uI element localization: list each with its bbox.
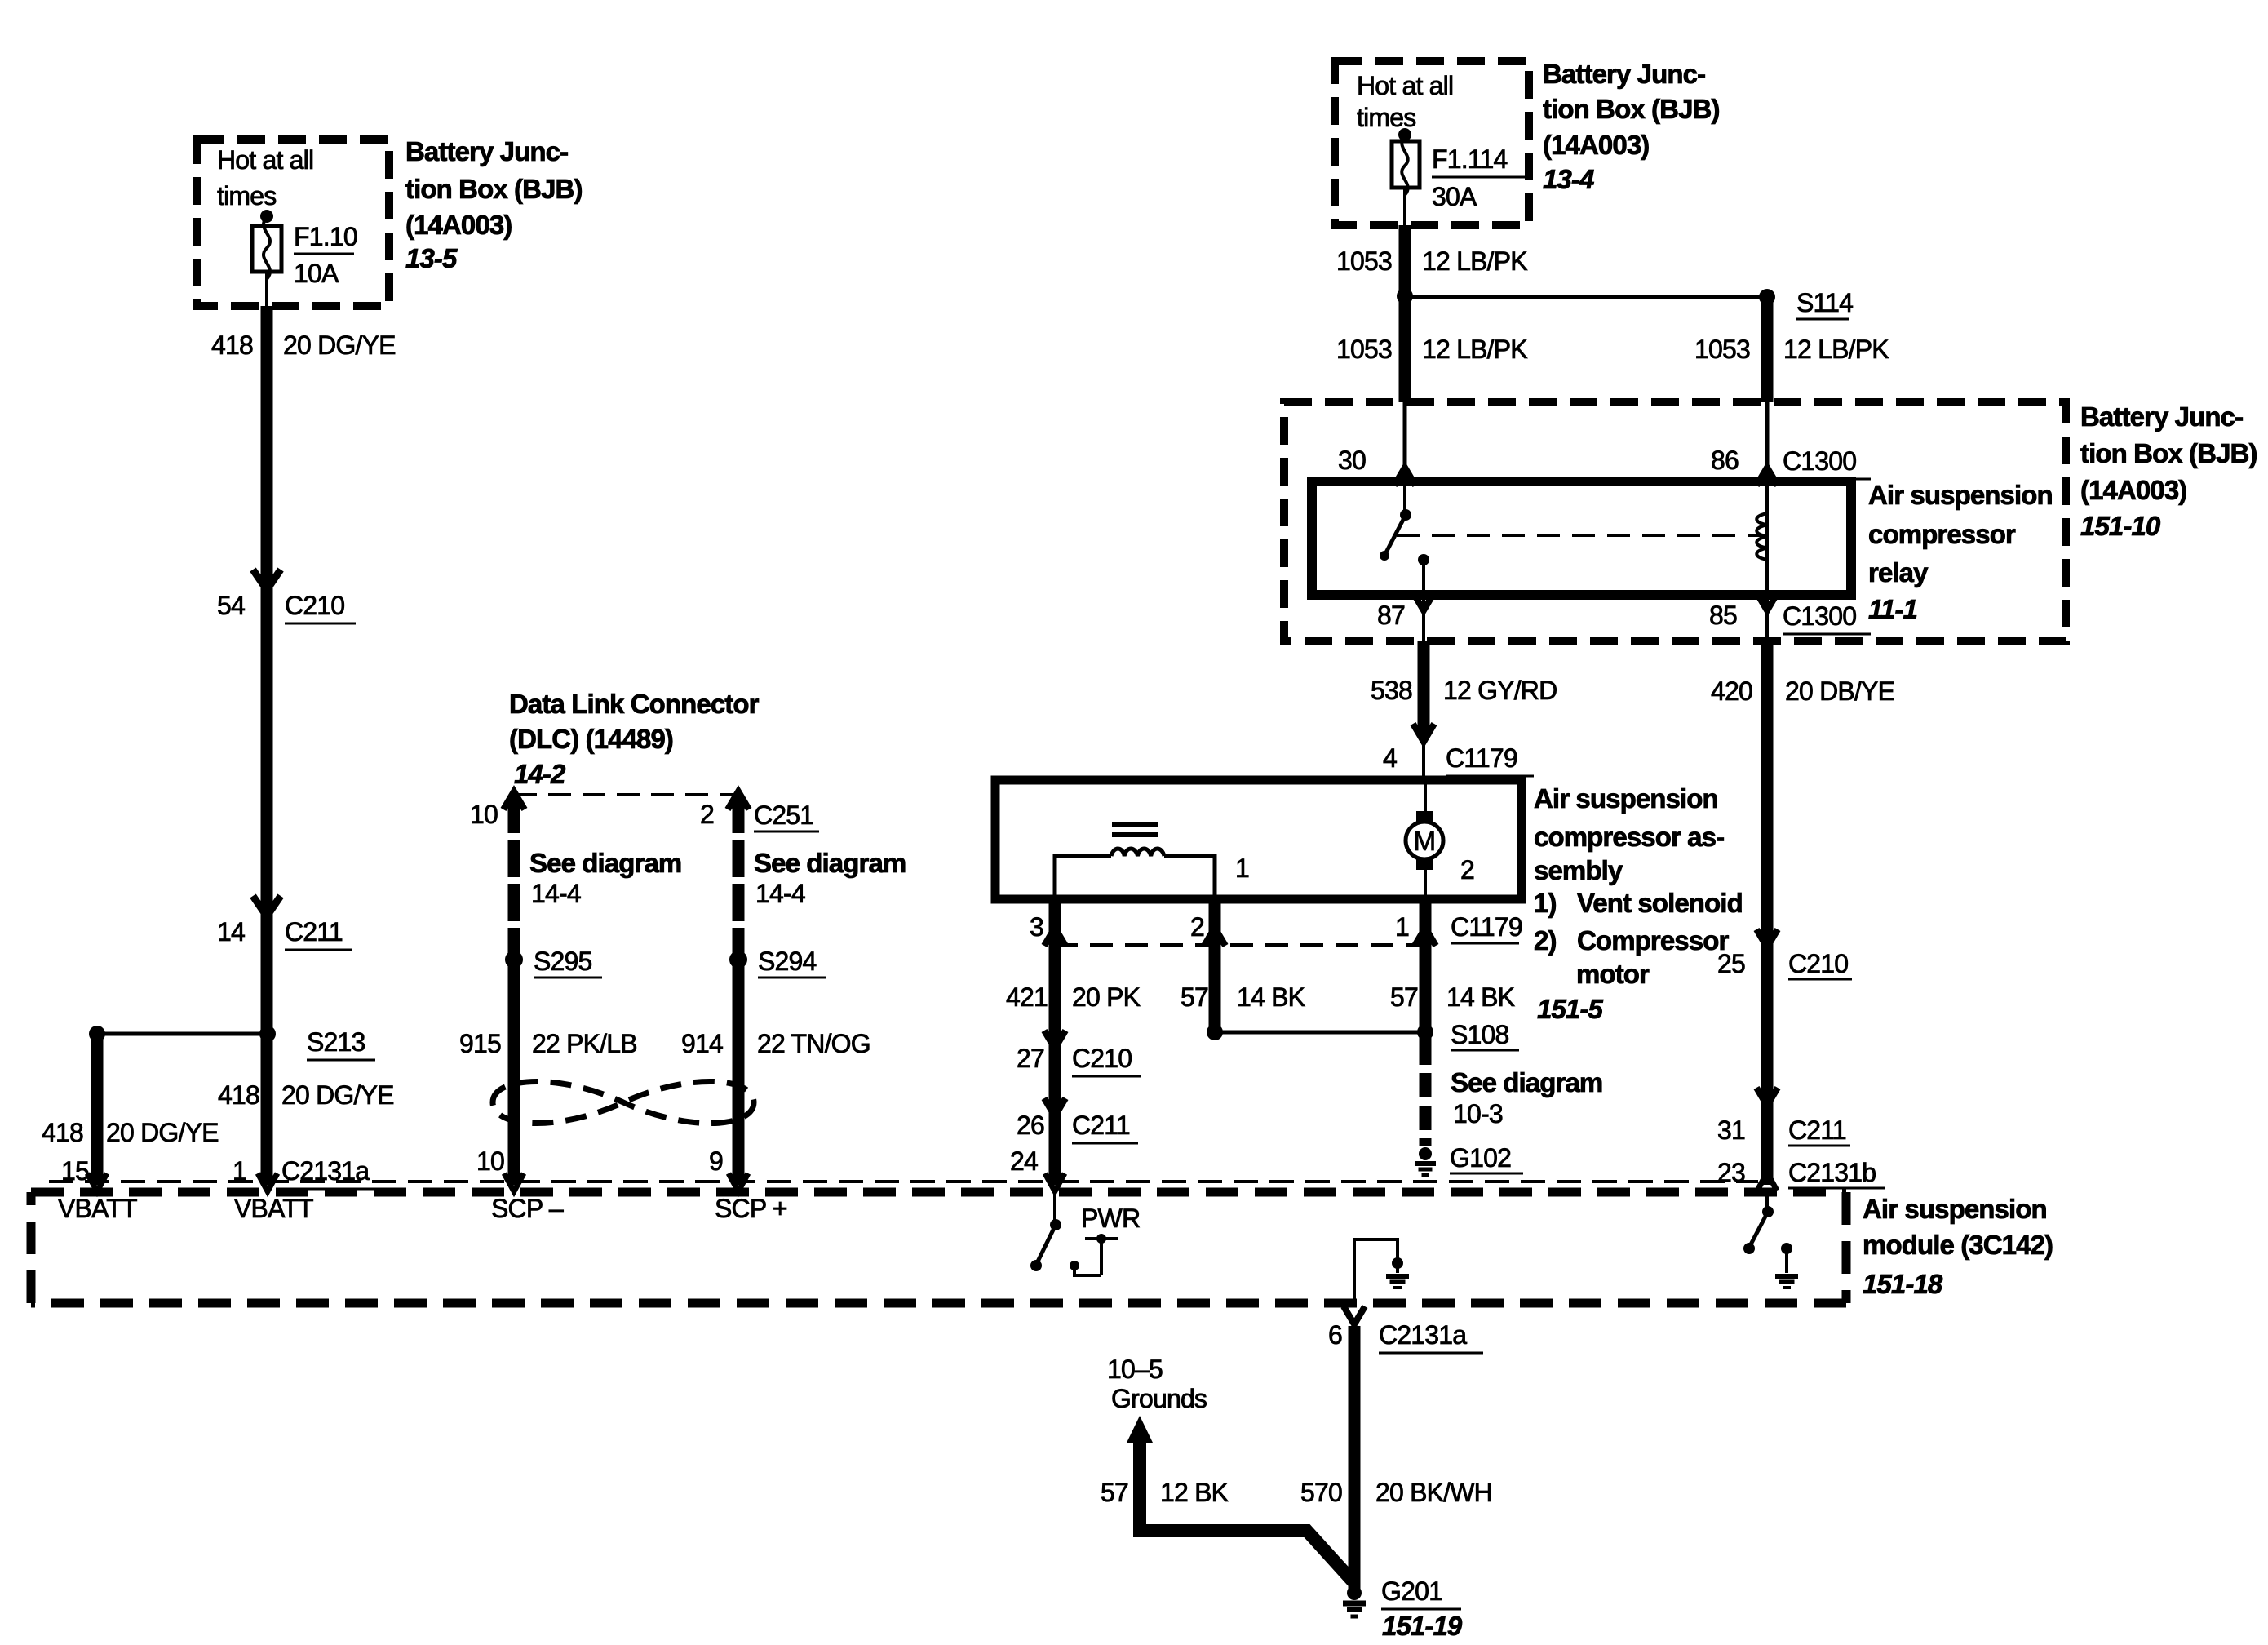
svg-text:Battery Junc-: Battery Junc- (1543, 59, 1705, 89)
svg-text:570: 570 (1300, 1478, 1342, 1507)
module pin 15 (arrow into module) (61, 1156, 107, 1191)
compressor pin 2 (arrow) (1190, 899, 1225, 1032)
wire (relay 85 through BJB boundary) (1765, 595, 1769, 641)
svg-text:14-4: 14-4 (531, 879, 581, 908)
svg-text:module (3C142): module (3C142) (1863, 1230, 2053, 1260)
battery junction box BJB (14A003) 13-5 outline (197, 140, 389, 306)
wire (relay 87 through BJB boundary) (1422, 595, 1425, 641)
svg-text:12 GY/RD: 12 GY/RD (1443, 676, 1557, 705)
svg-text:27: 27 (1017, 1044, 1044, 1073)
module pin 24 (arrow into module) (1010, 1146, 1065, 1191)
svg-text:See diagram: See diagram (1451, 1067, 1602, 1097)
svg-text:13-5: 13-5 (405, 243, 458, 273)
svg-text:Hot at all: Hot at all (217, 145, 313, 175)
svg-text:13-4: 13-4 (1543, 164, 1594, 194)
label: Hot at all times (BJB F1.10) (217, 145, 313, 211)
svg-text:C211: C211 (1788, 1115, 1846, 1145)
module internal switch (pin 23) (1743, 1192, 1774, 1254)
svg-text:motor: motor (1576, 959, 1650, 989)
svg-text:20 DB/YE: 20 DB/YE (1785, 676, 1894, 706)
svg-text:1053: 1053 (1336, 335, 1392, 364)
svg-text:9: 9 (709, 1146, 723, 1176)
value label: circuit 57 14 BK (solenoid return) (1181, 982, 1305, 1012)
svg-text:See diagram: See diagram (754, 848, 906, 878)
svg-text:F1.114: F1.114 (1432, 144, 1507, 174)
label: Air suspension module (3C142) 151-18 (1863, 1194, 2053, 1299)
svg-text:1: 1 (1395, 912, 1409, 942)
value label: circuit 57 14 BK (motor return) (1390, 982, 1515, 1012)
value label: circuit 418 20 DG/YE (upper) (211, 330, 396, 360)
wire 421 arrows: connector C210 pin 27 (1017, 1031, 1141, 1076)
connector C210 pin 54 (arrow) (217, 570, 356, 623)
relay switch contact (30 to 87) (1380, 481, 1429, 595)
svg-text:Grounds: Grounds (1111, 1384, 1207, 1413)
svg-text:sembly: sembly (1534, 855, 1623, 885)
svg-text:151-10: 151-10 (2080, 511, 2161, 541)
svg-text:418: 418 (211, 330, 253, 360)
DLC pin 10 wire (dashed, up arrow) (503, 791, 525, 1185)
wire 1053 12 LB/PK (fuse F1.114 down to S114 and relay pin 30) (1399, 225, 1411, 481)
svg-text:2): 2) (1534, 925, 1557, 956)
svg-text:10-3: 10-3 (1453, 1099, 1503, 1128)
svg-text:85: 85 (1709, 601, 1737, 630)
svg-text:times: times (1357, 103, 1415, 132)
svg-text:1): 1) (1534, 888, 1557, 918)
compressor motor M (symbol) (1406, 780, 1443, 899)
svg-text:86: 86 (1711, 446, 1739, 475)
module internal ground (right) (1775, 1243, 1798, 1288)
svg-text:VBATT: VBATT (234, 1194, 313, 1223)
DLC connector link (thin dashed) (514, 793, 738, 796)
module pin 9 SCP+ (arrow into module) (709, 1146, 748, 1191)
label: Air suspension compressor assembly 1) Vent solenoid 2) Compressor motor 151-5 (1534, 783, 1743, 1024)
svg-text:PWR: PWR (1081, 1204, 1140, 1233)
connector C1179 dashed link (1055, 943, 1425, 947)
svg-text:24: 24 (1010, 1146, 1038, 1176)
compressor pin 1 connector C1179 (arrow) (1395, 899, 1522, 1040)
svg-text:Air suspension: Air suspension (1863, 1194, 2047, 1224)
battery junction box BJB (14A003) 13-4 outline (1335, 61, 1529, 225)
module internal ground link (pin 6) (1354, 1239, 1409, 1306)
svg-text:3: 3 (1030, 912, 1043, 942)
svg-text:20 DG/YE: 20 DG/YE (283, 330, 396, 360)
value label: circuit 418 20 DG/YE (left branch) (42, 1118, 219, 1147)
svg-text:421: 421 (1006, 982, 1048, 1012)
svg-text:2: 2 (1460, 855, 1474, 885)
svg-text:tion Box (BJB): tion Box (BJB) (2080, 438, 2257, 468)
relay pin 30 (arrow) (1338, 446, 1415, 486)
svg-text:C210: C210 (1788, 949, 1848, 978)
svg-text:12 LB/PK: 12 LB/PK (1422, 246, 1527, 276)
svg-text:418: 418 (42, 1118, 83, 1147)
svg-text:151-19: 151-19 (1382, 1611, 1463, 1641)
value label: circuit 421 20 PK (1006, 982, 1141, 1012)
fuse F1.114 30A (1392, 128, 1525, 225)
value label: circuit 420 20 DB/YE (1711, 676, 1894, 706)
svg-text:(14A003): (14A003) (2080, 475, 2186, 505)
connector C211 pin 14 (arrow) (217, 896, 352, 950)
svg-text:12 BK: 12 BK (1160, 1478, 1229, 1507)
value label: circuit 914 22 TN/OG (681, 1029, 870, 1058)
splice S294 (junction) (729, 947, 826, 978)
svg-text:tion Box (BJB): tion Box (BJB) (1543, 94, 1720, 124)
pin label 2 / connector C251 (700, 800, 819, 831)
svg-text:Air suspension: Air suspension (1534, 783, 1718, 814)
svg-text:C2131b: C2131b (1788, 1158, 1876, 1187)
module pin 10 SCP- (arrow into module) (476, 1146, 524, 1191)
note: See diagram 14-4 (left) (529, 848, 681, 908)
svg-text:87: 87 (1377, 601, 1405, 630)
svg-text:10A: 10A (294, 259, 339, 288)
label: Hot at all times (BJB F1.114) (1357, 71, 1453, 132)
pin label 2 (compressor motor) (1460, 855, 1474, 885)
relay pin 86 connector C1300 (arrow) (1711, 446, 1871, 486)
net label SCP + (715, 1194, 787, 1223)
svg-text:S213: S213 (307, 1027, 365, 1057)
splice S213 (junction) (89, 1026, 375, 1060)
svg-text:4: 4 (1383, 743, 1397, 773)
wire 538 12 GY/RD (relay 87 to compressor pin 4) (1418, 641, 1430, 737)
label: Battery Junction Box (BJB) (14A003) 13-4 (1543, 59, 1720, 194)
svg-text:F1.10: F1.10 (294, 222, 357, 251)
svg-text:C211: C211 (285, 917, 343, 947)
svg-text:C2131a: C2131a (1379, 1320, 1467, 1350)
svg-text:M: M (1414, 826, 1436, 856)
wire 420 20 DB/YE (relay 85 to module pin 23) (1761, 641, 1774, 1185)
svg-text:14-4: 14-4 (755, 879, 805, 908)
pin label 10 (DLC top) (470, 800, 498, 829)
svg-text:C210: C210 (285, 591, 344, 620)
relay coil (85-86) (1756, 481, 1767, 595)
module internal switch (pin 24 PWR) (1030, 1192, 1061, 1271)
svg-text:Battery Junc-: Battery Junc- (405, 136, 568, 166)
svg-text:538: 538 (1371, 676, 1412, 705)
value label: circuit 1053 12 LB/PK (right) (1694, 335, 1889, 364)
svg-text:151-5: 151-5 (1537, 994, 1603, 1024)
ground G102 (1415, 1143, 1523, 1175)
svg-text:(14A003): (14A003) (405, 210, 512, 240)
connector C1179 pin 4 (arrow) (1383, 724, 1534, 780)
svg-text:14 BK: 14 BK (1237, 982, 1305, 1012)
svg-text:1053: 1053 (1694, 335, 1750, 364)
fuse F1.10 10A (252, 210, 357, 306)
label: Data Link Connector (DLC) (14489) 14-2 (509, 689, 760, 789)
splice S295 (junction) (505, 947, 602, 978)
module pin 6 connector C2131a (arrow out of module) (1328, 1306, 1483, 1353)
svg-text:30: 30 (1338, 446, 1366, 475)
svg-text:(14A003): (14A003) (1543, 130, 1649, 160)
value label: circuit 57 12 BK (1101, 1478, 1229, 1507)
relay pin 85 connector C1300 (arrow) (1709, 592, 1871, 634)
svg-text:S294: S294 (758, 947, 817, 976)
relay pin 87 (arrow) (1377, 592, 1434, 630)
svg-text:420: 420 (1711, 676, 1752, 706)
svg-text:(DLC) (14489): (DLC) (14489) (509, 724, 673, 754)
pin label 1 (vent solenoid) (1235, 854, 1249, 883)
svg-text:14 BK: 14 BK (1446, 982, 1515, 1012)
wire 421 arrows: connector C211 pin 26 (1017, 1098, 1138, 1143)
svg-text:11-1: 11-1 (1868, 594, 1917, 624)
svg-text:2: 2 (1190, 912, 1204, 942)
svg-text:57: 57 (1390, 982, 1418, 1012)
svg-text:22 TN/OG: 22 TN/OG (757, 1029, 870, 1058)
svg-text:20 BK/WH: 20 BK/WH (1375, 1478, 1492, 1507)
svg-text:G201: G201 (1381, 1576, 1442, 1606)
net label PWR and symbol (1070, 1204, 1140, 1275)
wire 418 20 DG/YE (fuse F1.10 down to S213 and module pin 1) (261, 306, 273, 1185)
svg-text:C1179: C1179 (1451, 912, 1522, 942)
svg-text:12 LB/PK: 12 LB/PK (1783, 335, 1889, 364)
svg-text:S114: S114 (1796, 288, 1853, 317)
vent solenoid (symbol) (1055, 825, 1215, 899)
air suspension compressor relay K1 outline (1312, 481, 1851, 595)
svg-text:30A: 30A (1432, 182, 1477, 211)
svg-text:10: 10 (470, 800, 498, 829)
value label: circuit 418 20 DG/YE (right of S213) (218, 1080, 394, 1110)
svg-text:914: 914 (681, 1029, 723, 1058)
svg-text:20 PK: 20 PK (1072, 982, 1141, 1012)
svg-text:6: 6 (1328, 1320, 1342, 1350)
svg-text:57: 57 (1101, 1478, 1128, 1507)
svg-text:relay: relay (1868, 557, 1929, 587)
svg-text:915: 915 (459, 1029, 501, 1058)
svg-text:Compressor: Compressor (1577, 925, 1729, 956)
net label SCP - (491, 1194, 564, 1223)
net label VBATT (pin 15) (58, 1194, 137, 1223)
value label: circuit 1053 12 LB/PK (left lower) (1336, 335, 1527, 364)
wire 57 12 BK (to grounds 10-5, up arrow) (1127, 1416, 1354, 1583)
svg-text:Data Link Connector: Data Link Connector (509, 689, 760, 719)
svg-text:418: 418 (218, 1080, 259, 1110)
air suspension module connector face (thin dashed line) (49, 1180, 1758, 1183)
svg-text:57: 57 (1181, 982, 1208, 1012)
svg-text:20 DG/YE: 20 DG/YE (281, 1080, 394, 1110)
svg-text:See diagram: See diagram (529, 848, 681, 878)
svg-text:Battery Junc-: Battery Junc- (2080, 401, 2243, 432)
svg-text:C1179: C1179 (1446, 743, 1517, 773)
value label: circuit 538 12 GY/RD (1371, 676, 1557, 705)
connector C210 pin 25 (arrow) (1717, 929, 1852, 979)
air suspension module (3C142) outline (31, 1192, 1846, 1303)
splice S108 (junction) (1207, 1020, 1519, 1050)
net label VBATT (pin 1) (234, 1194, 313, 1223)
svg-text:1: 1 (1235, 854, 1249, 883)
wire 418 20 DG/YE (S213 branch down to module pin 15) (91, 1034, 104, 1185)
DLC pin 2 wire connector C251 (dashed, up arrow) (728, 791, 749, 1185)
splice S114 (junction) (1397, 288, 1853, 319)
note: See diagram 10-3 (1451, 1067, 1602, 1128)
svg-text:C251: C251 (754, 800, 813, 830)
compressor pin 3 (arrow) (1030, 899, 1065, 1185)
svg-text:times: times (217, 181, 276, 211)
svg-text:S295: S295 (534, 947, 592, 976)
battery junction box BJB (14A003) 151-10 outline (1284, 402, 2066, 641)
svg-text:22 PK/LB: 22 PK/LB (532, 1029, 637, 1058)
svg-text:S108: S108 (1451, 1020, 1509, 1049)
svg-text:VBATT: VBATT (58, 1194, 137, 1223)
relay actuator link (dashed) (1397, 534, 1761, 537)
module pin 23 connector C2131b (arrow into module) (1717, 1158, 1885, 1191)
value label: circuit 570 20 BK/WH (1300, 1478, 1492, 1507)
svg-text:10: 10 (476, 1146, 504, 1176)
svg-text:compressor: compressor (1868, 519, 2016, 549)
svg-text:Air suspension: Air suspension (1868, 480, 2053, 510)
svg-text:151-18: 151-18 (1863, 1269, 1943, 1299)
value label: circuit 1053 12 LB/PK (upper) (1336, 246, 1527, 276)
svg-text:26: 26 (1017, 1111, 1044, 1140)
svg-text:20 DG/YE: 20 DG/YE (106, 1118, 219, 1147)
svg-text:G102: G102 (1450, 1143, 1511, 1173)
label: Battery Junction Box (BJB) (14A003) 151-10 (2080, 401, 2257, 541)
svg-text:SCP –: SCP – (491, 1194, 564, 1223)
wire 1053 12 LB/PK (S114 to relay coil pin 86) (1761, 297, 1774, 481)
svg-text:SCP +: SCP + (715, 1194, 787, 1223)
note: See diagram 14-4 (right) (754, 848, 906, 908)
svg-text:14-2: 14-2 (514, 759, 566, 789)
svg-text:tion Box (BJB): tion Box (BJB) (405, 174, 583, 204)
label: Air suspension compressor relay 11-1 (1868, 480, 2053, 624)
svg-text:10–5: 10–5 (1107, 1355, 1163, 1384)
svg-text:Hot at all: Hot at all (1357, 71, 1453, 100)
svg-text:compressor as-: compressor as- (1534, 822, 1724, 852)
svg-text:54: 54 (217, 591, 245, 620)
svg-text:14: 14 (217, 917, 245, 947)
svg-text:C210: C210 (1072, 1044, 1132, 1073)
note: 10-5 Grounds (1107, 1355, 1207, 1413)
ground G201 151-19 (1343, 1576, 1463, 1641)
twisted pair symbol (SCP bus) (493, 1081, 754, 1123)
wire 57 14 BK (S108 to ground G102, dashed) (1420, 1040, 1432, 1146)
wire 570 20 BK/WH (pin 6 to G201) (1349, 1326, 1361, 1590)
air suspension compressor assembly outline (995, 780, 1522, 899)
connector C211 pin 31 (arrow) (1717, 1088, 1850, 1146)
svg-text:1053: 1053 (1336, 246, 1392, 276)
svg-text:2: 2 (700, 800, 714, 829)
value label: circuit 915 22 PK/LB (459, 1029, 637, 1058)
module pin 1 connector C2131a (arrow into module) (233, 1156, 386, 1191)
svg-text:12 LB/PK: 12 LB/PK (1422, 335, 1527, 364)
label: Battery Junction Box (BJB) (14A003) 13-5 (405, 136, 583, 273)
svg-text:Vent solenoid: Vent solenoid (1577, 888, 1743, 918)
svg-text:C1300: C1300 (1783, 601, 1856, 631)
svg-text:C211: C211 (1072, 1111, 1130, 1140)
svg-text:25: 25 (1717, 949, 1745, 978)
svg-text:31: 31 (1717, 1115, 1745, 1145)
svg-text:C1300: C1300 (1783, 446, 1856, 476)
